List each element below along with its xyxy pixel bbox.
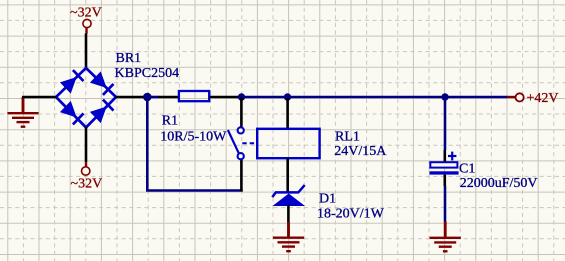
junction node C (+ rail / coil top) bbox=[284, 93, 291, 100]
wire: node A to R1 left pin bbox=[159, 96, 179, 99]
junction node B (R1 out / contact top) bbox=[238, 93, 245, 100]
BR1 diode D-a (left to top edge) bbox=[60, 70, 84, 94]
junction node D (+ rail / C1) bbox=[441, 93, 448, 100]
zener diode D1: cathode bar (Z-style) bbox=[272, 185, 304, 197]
wire: node A down (bypass branch) bbox=[146, 97, 149, 191]
wire: bypass bottom horizontal run bbox=[146, 189, 243, 192]
wire: bridge bottom corner to ~32V bottom bbox=[85, 127, 88, 162]
svg-text:BR1: BR1 bbox=[116, 51, 142, 66]
resistor R1 (body) bbox=[179, 91, 209, 101]
BR1 diode D-d (bottom to right edge) bbox=[90, 99, 114, 123]
ground (under C1) bbox=[430, 222, 461, 252]
wire: bridge right corner to node A bbox=[116, 96, 149, 99]
wire: node D down to C1 bbox=[444, 97, 447, 150]
wire: bypass up to contact bottom pin bbox=[240, 160, 243, 192]
wire: + rail (node B to +42V port) bbox=[242, 96, 508, 99]
junction node A (bridge + / R1 / bypass contact) bbox=[143, 93, 159, 102]
relay RL1 contact: bottom terminal circle bbox=[238, 153, 244, 159]
capacitor C1 negative plate (solid) bbox=[429, 171, 458, 174]
ground (under D1) bbox=[273, 222, 304, 251]
BR1 diode D-c (left to bottom edge) bbox=[60, 101, 84, 125]
wire: top AC input to bridge bbox=[85, 34, 88, 69]
svg-text:D1: D1 bbox=[319, 191, 336, 206]
BR1 diode D-b (top to right edge) bbox=[90, 71, 114, 95]
svg-text:24V/15A: 24V/15A bbox=[334, 144, 387, 159]
capacitor C1 plus mark bbox=[448, 152, 456, 161]
svg-text:R1: R1 bbox=[162, 114, 178, 129]
wire: D1 anode pin down bbox=[287, 205, 290, 223]
bridge rectifier BR1 (diamond) bbox=[56, 68, 116, 128]
svg-text:KBPC2504: KBPC2504 bbox=[115, 66, 180, 81]
wire: node C down to coil top pin bbox=[286, 97, 289, 129]
C1 bottom pin bbox=[443, 175, 446, 186]
zener diode D1: anode triangle bbox=[273, 194, 306, 207]
svg-text:+42V: +42V bbox=[527, 91, 559, 106]
svg-text:22000uF/50V: 22000uF/50V bbox=[460, 176, 538, 191]
wire: C1 to ground bbox=[444, 186, 447, 222]
relay RL1 actuation link (dashed) bbox=[242, 142, 256, 144]
wire: coil bottom pin to D1 cathode bbox=[286, 158, 289, 193]
C1 top pin bbox=[443, 150, 446, 162]
wire: R1 right pin to node B bbox=[210, 96, 242, 99]
capacitor C1 positive plate (hollow) bbox=[430, 162, 457, 167]
power port ~32V (top terminal) bbox=[83, 19, 91, 33]
wire: node B down to contact top pin bbox=[240, 97, 243, 127]
relay RL1 contact: blade (open) bbox=[228, 130, 239, 153]
wire: ground to bridge left corner bbox=[22, 96, 57, 99]
ground (negative rail at bridge) bbox=[7, 97, 38, 127]
svg-text:10R/5-10W: 10R/5-10W bbox=[160, 130, 227, 145]
svg-text:~32V: ~32V bbox=[71, 177, 103, 192]
power port +42V bbox=[507, 93, 524, 101]
power port ~32V (bottom terminal) bbox=[82, 162, 90, 175]
svg-text:C1: C1 bbox=[459, 162, 475, 177]
svg-text:~32V: ~32V bbox=[70, 5, 102, 20]
svg-text:18-20V/1W: 18-20V/1W bbox=[317, 207, 385, 222]
relay RL1 coil (box) bbox=[257, 129, 319, 158]
relay RL1 contact: top terminal circle bbox=[238, 127, 244, 133]
svg-text:RL1: RL1 bbox=[335, 129, 360, 144]
